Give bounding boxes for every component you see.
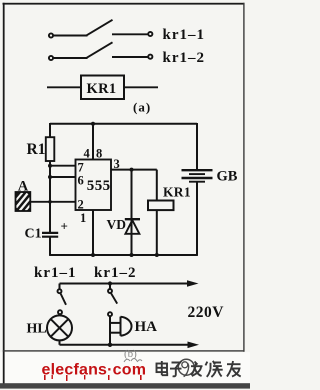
watermark chinese 烧 [206, 361, 223, 377]
wire left rail lower [49, 161, 51, 233]
wire relay branch [156, 170, 158, 201]
svg-text:R1: R1 [27, 141, 46, 158]
diode VD [125, 219, 140, 234]
svg-text:kr1–2: kr1–2 [163, 50, 206, 66]
wire left rail upper [49, 123, 51, 138]
touch plate A (hatched box) [16, 192, 31, 211]
watermark crown above om [124, 359, 142, 363]
wire top rail [50, 123, 197, 125]
node L2 / HA branch [108, 343, 112, 347]
node bottom rail / coil [155, 253, 159, 257]
watermark logo circle [178, 359, 194, 376]
svg-text:2: 2 [78, 198, 84, 212]
watermark chinese 友 [227, 361, 241, 377]
node L1 / kr1-2 branch [108, 281, 112, 285]
wire bottom rail [50, 254, 197, 256]
horn HA [110, 316, 132, 344]
contact kr1-2 (lower switch) [108, 284, 117, 317]
wire 220V line L2 [60, 344, 193, 346]
battery GB [182, 170, 213, 182]
watermark red drips [44, 375, 142, 381]
wire pins 4/8 to top rail [92, 124, 94, 160]
svg-text:HL: HL [27, 321, 47, 336]
contact kr1-1 (lower switch) [58, 284, 67, 315]
wire pin 1 to bottom rail [92, 210, 94, 255]
svg-text:kr1–1: kr1–1 [34, 265, 77, 281]
svg-text:1: 1 [80, 211, 86, 225]
svg-text:elecfans·com: elecfans·com [42, 362, 147, 379]
node pin6 tap [48, 175, 52, 179]
border frame bottom (schematic area) [3, 350, 244, 351]
resistor R1 [46, 137, 55, 161]
svg-text:C1: C1 [25, 227, 42, 242]
wire to pin 6 [50, 176, 76, 178]
border frame left [3, 3, 5, 386]
node top rail / 4-8 [91, 122, 95, 126]
border frame top [3, 3, 245, 5]
IC 555 box [76, 160, 112, 211]
svg-text:KR1: KR1 [87, 81, 117, 97]
relay coil KR1 (b-section coil) [148, 201, 174, 211]
switch contact kr1-2 [49, 42, 152, 60]
svg-text:(a): (a) [133, 100, 151, 115]
bottom dark band [0, 383, 250, 388]
svg-text:6: 6 [78, 174, 84, 188]
svg-text:kr1–1: kr1–1 [163, 27, 206, 43]
arrow L1 [187, 280, 199, 287]
svg-text:kr1–2: kr1–2 [94, 265, 137, 281]
svg-text:555: 555 [87, 178, 111, 194]
svg-text:(b): (b) [124, 348, 137, 360]
svg-text:GB: GB [217, 169, 238, 185]
wire battery top [196, 123, 198, 170]
svg-text:7: 7 [78, 161, 84, 175]
svg-text:VD: VD [107, 217, 127, 232]
svg-text:HA: HA [135, 319, 158, 335]
node pin3 / VD [130, 168, 134, 172]
node bottom rail / VD [130, 253, 134, 257]
watermark chinese 发 [191, 362, 203, 377]
watermark chinese 电 [157, 361, 168, 375]
node below R1 (pin7 tap) [48, 164, 52, 168]
svg-text:+: + [61, 219, 68, 234]
svg-text:220V: 220V [188, 304, 225, 321]
wire 220V line L1 [60, 283, 193, 285]
svg-text:8: 8 [96, 146, 102, 160]
switch contact kr1-1 [49, 20, 152, 38]
wire right of KR1 [124, 86, 158, 88]
wire to pin 7 [50, 165, 76, 167]
node bottom rail / pin1 [91, 253, 95, 257]
arrow L2 [188, 342, 200, 349]
wire pin 3 [111, 169, 157, 171]
wire sensor to pin 2 [30, 201, 75, 203]
watermark chinese 子 [170, 363, 182, 377]
border frame right [243, 3, 244, 352]
wire battery bottom [196, 182, 198, 256]
svg-text:KR1: KR1 [163, 185, 191, 200]
wire coil to bottom rail [156, 210, 158, 255]
svg-text:4: 4 [84, 146, 91, 160]
wire left of KR1 [47, 86, 81, 88]
node sensor/C1 [48, 200, 52, 204]
capacitor C1 [42, 233, 58, 237]
relay coil box KR1 (a) [81, 76, 124, 100]
lamp HL [47, 314, 72, 345]
wire VD branch [131, 170, 133, 255]
